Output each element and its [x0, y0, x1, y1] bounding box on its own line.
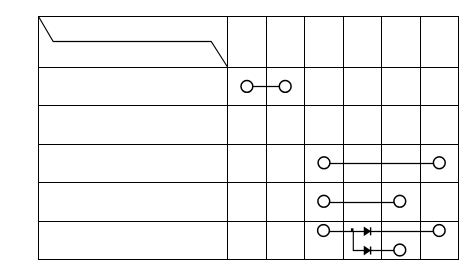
terminal T6 — [394, 195, 406, 207]
column line 5 — [381, 16, 383, 259]
column line 4 — [343, 16, 345, 259]
wire W6 branch: junction down then right to diode D2 anode — [353, 232, 364, 251]
wire W1 T1-T2 — [253, 86, 279, 88]
column line 6 — [420, 16, 422, 259]
terminal T3 — [318, 157, 330, 169]
wire W2 T3-T4 — [330, 163, 434, 165]
row line 3 — [38, 144, 459, 146]
diode D2 — [364, 247, 370, 255]
row line 4 — [38, 182, 459, 184]
terminal T1 — [241, 81, 253, 93]
diode D1 — [364, 227, 370, 235]
wire W3 T5-T6 — [330, 202, 394, 204]
row line 1 — [38, 67, 459, 69]
column line 3 — [304, 16, 306, 259]
table outer border — [39, 17, 459, 260]
terminal T2 — [279, 81, 291, 93]
wire W4 T7 to diode D1 anode — [329, 231, 364, 233]
terminal T8 — [433, 225, 445, 237]
terminal T5 — [318, 195, 330, 207]
wire W7 diode D2 cathode to T9 — [370, 250, 394, 252]
terminal T9 — [394, 244, 406, 256]
header diagonal break mark — [39, 17, 228, 68]
row line 2 — [38, 105, 459, 107]
wire W5 diode D1 cathode to T8 — [370, 231, 433, 233]
column line 1 — [227, 16, 229, 259]
junction node J1 — [351, 228, 354, 231]
row line 5 — [38, 221, 459, 223]
column line 2 — [266, 16, 268, 259]
terminal T4 — [433, 157, 445, 169]
terminal T7 — [318, 225, 330, 237]
